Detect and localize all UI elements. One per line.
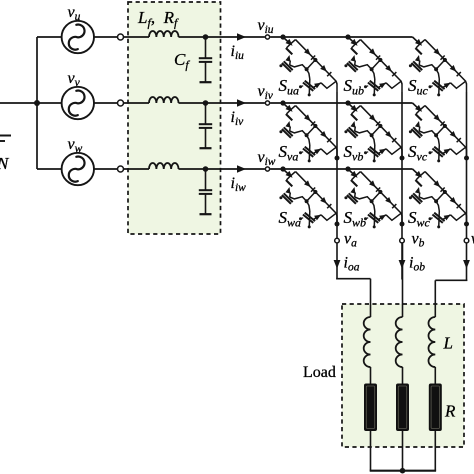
svg-text:Lf, Rf: Lf, Rf — [137, 8, 179, 30]
wire inductor to cap node — [179, 36, 233, 38]
node v_b (open circle) — [400, 238, 405, 243]
wire source to terminal — [94, 102, 118, 104]
wire to node v_iv — [232, 102, 265, 104]
junction cap node row u — [203, 34, 209, 40]
wire col b down — [402, 243, 404, 317]
wire output column b — [401, 92, 403, 238]
terminal (open circle) after vu — [118, 34, 124, 40]
wire source to terminal — [94, 168, 118, 170]
wire matrix input row u — [270, 36, 412, 38]
wire neutral vertical bus — [36, 37, 38, 169]
wire to node v_iw — [232, 168, 265, 170]
source vu (AC sine source) — [62, 21, 94, 53]
inductor Lf,Rf row w — [149, 163, 179, 169]
junction row u col a — [280, 34, 285, 39]
bidirectional switch S_wa — [279, 169, 337, 228]
wire below node v_b — [401, 243, 403, 279]
wire terminal into filter — [123, 168, 149, 170]
junction row w col a — [280, 166, 285, 171]
junction col a row v — [335, 156, 340, 161]
terminal (open circle) after vw — [118, 166, 124, 172]
node v_iu (open circle) — [265, 35, 269, 39]
input filter box — [128, 2, 221, 234]
junction row u col b — [345, 34, 350, 39]
source vv (AC sine source) — [62, 87, 94, 119]
current arrow i_oa — [334, 260, 341, 269]
wire L to R phase a — [370, 367, 372, 384]
wire below node v_a — [336, 243, 338, 279]
load inductor L phase a — [364, 317, 371, 367]
capacitor Cf row u — [199, 37, 212, 82]
bidirectional switch S_ub — [344, 37, 402, 96]
wire inductor to cap node — [179, 168, 233, 170]
node v_iv (open circle) — [265, 101, 269, 105]
load resistor R phase a — [364, 384, 377, 432]
current arrow i_oc — [463, 260, 470, 269]
capacitor Cf row v — [199, 103, 212, 148]
wire L to R phase c — [434, 367, 436, 384]
junction col b row v — [400, 156, 405, 161]
node v_iw (open circle) — [265, 167, 269, 171]
current arrow i_iu — [237, 33, 246, 41]
star point wire — [370, 470, 436, 472]
ground (neutral) symbol, clipped at left edge — [0, 135, 11, 137]
bidirectional switch S_uc — [409, 37, 467, 96]
bidirectional switch S_va — [279, 103, 337, 162]
wire matrix input row v — [270, 102, 412, 104]
junction col a row w — [335, 222, 340, 227]
bidirectional switch S_wb — [344, 169, 402, 228]
junction col c row w — [464, 222, 469, 227]
wire jog col a — [336, 278, 370, 280]
junction row v col a — [280, 100, 285, 105]
bidirectional switch S_vb — [344, 103, 402, 162]
bidirectional switch S_vc — [409, 103, 467, 162]
star point junction — [400, 468, 406, 474]
wire L to R phase b — [402, 367, 404, 384]
wire inductor to cap node — [179, 102, 233, 104]
load resistor R phase b — [396, 384, 409, 432]
wire output column c — [466, 92, 468, 238]
junction col b row w — [400, 222, 405, 227]
load box — [342, 304, 464, 447]
bidirectional switch S_ua — [279, 37, 337, 96]
node v_a (open circle) — [335, 238, 340, 243]
wire bus to source vw — [37, 168, 62, 170]
wire source to terminal — [94, 36, 118, 38]
wire bus to source vu — [37, 36, 62, 38]
wire R to star point phase c — [434, 431, 436, 471]
load inductor L phase c — [428, 317, 435, 367]
svg-text:R: R — [444, 402, 456, 421]
junction row w col b — [345, 166, 350, 171]
junction cap node row w — [203, 166, 209, 172]
svg-text:L: L — [443, 334, 453, 353]
terminal (open circle) after vv — [118, 100, 124, 106]
current arrow i_iw — [237, 165, 246, 173]
junction cap node row v — [203, 100, 209, 106]
source vw (AC sine source) — [62, 153, 94, 185]
load inductor L phase b — [396, 317, 403, 367]
wire neutral horizontal — [0, 102, 37, 104]
wire to node v_iu — [232, 36, 265, 38]
wire jog col c — [435, 279, 467, 281]
inductor Lf,Rf row u — [149, 31, 179, 37]
wire terminal into filter — [123, 102, 149, 104]
wire bus to source vv — [37, 102, 62, 104]
wire below node v_c — [466, 243, 468, 279]
wire output column a — [336, 92, 338, 238]
load resistor R phase c — [429, 384, 442, 432]
node v_c (open circle) — [464, 238, 469, 243]
bidirectional switch S_wc — [409, 169, 467, 228]
capacitor Cf row w — [199, 169, 212, 214]
wire terminal into filter — [123, 36, 149, 38]
current arrow i_ob — [399, 260, 406, 269]
wire R to star point phase a — [370, 431, 372, 471]
wire matrix input row w — [270, 168, 412, 170]
current arrow i_iv — [237, 99, 246, 107]
junction neutral bus — [34, 100, 40, 106]
junction row v col b — [345, 100, 350, 105]
svg-text:Load: Load — [303, 364, 336, 381]
junction col c row v — [464, 156, 469, 161]
wire R to star point phase b — [402, 431, 404, 471]
inductor Lf,Rf row v — [149, 97, 179, 103]
